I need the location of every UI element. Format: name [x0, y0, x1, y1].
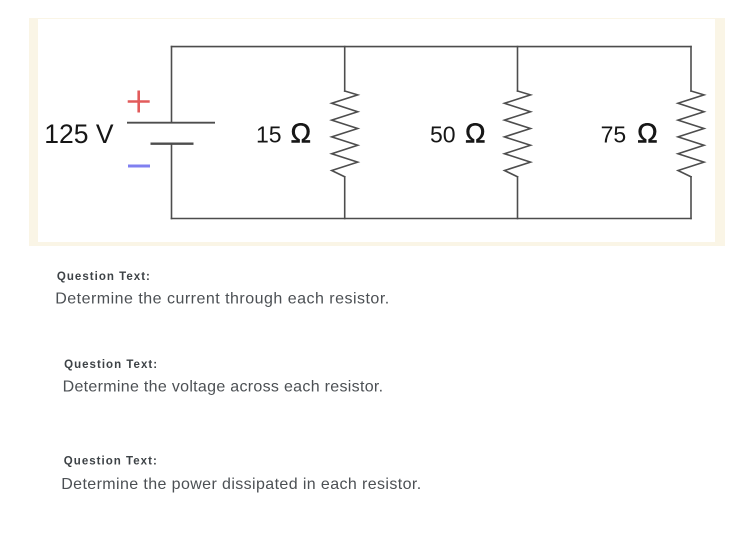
svg-text:Question Text:: Question Text: [57, 271, 150, 283]
svg-text:15 Ω: 15 Ω [256, 118, 311, 149]
svg-text:Determine the power dissipated: Determine the power dissipated in each r… [61, 476, 421, 493]
svg-text:Question Text:: Question Text: [64, 456, 157, 468]
svg-text:75 Ω: 75 Ω [601, 118, 658, 149]
svg-text:Question Text:: Question Text: [64, 359, 157, 371]
svg-text:Determine the current through: Determine the current through each resis… [55, 290, 389, 307]
svg-text:125 V: 125 V [44, 119, 114, 149]
svg-text:50 Ω: 50 Ω [430, 118, 486, 149]
svg-text:Determine the voltage across e: Determine the voltage across each resist… [63, 378, 384, 395]
